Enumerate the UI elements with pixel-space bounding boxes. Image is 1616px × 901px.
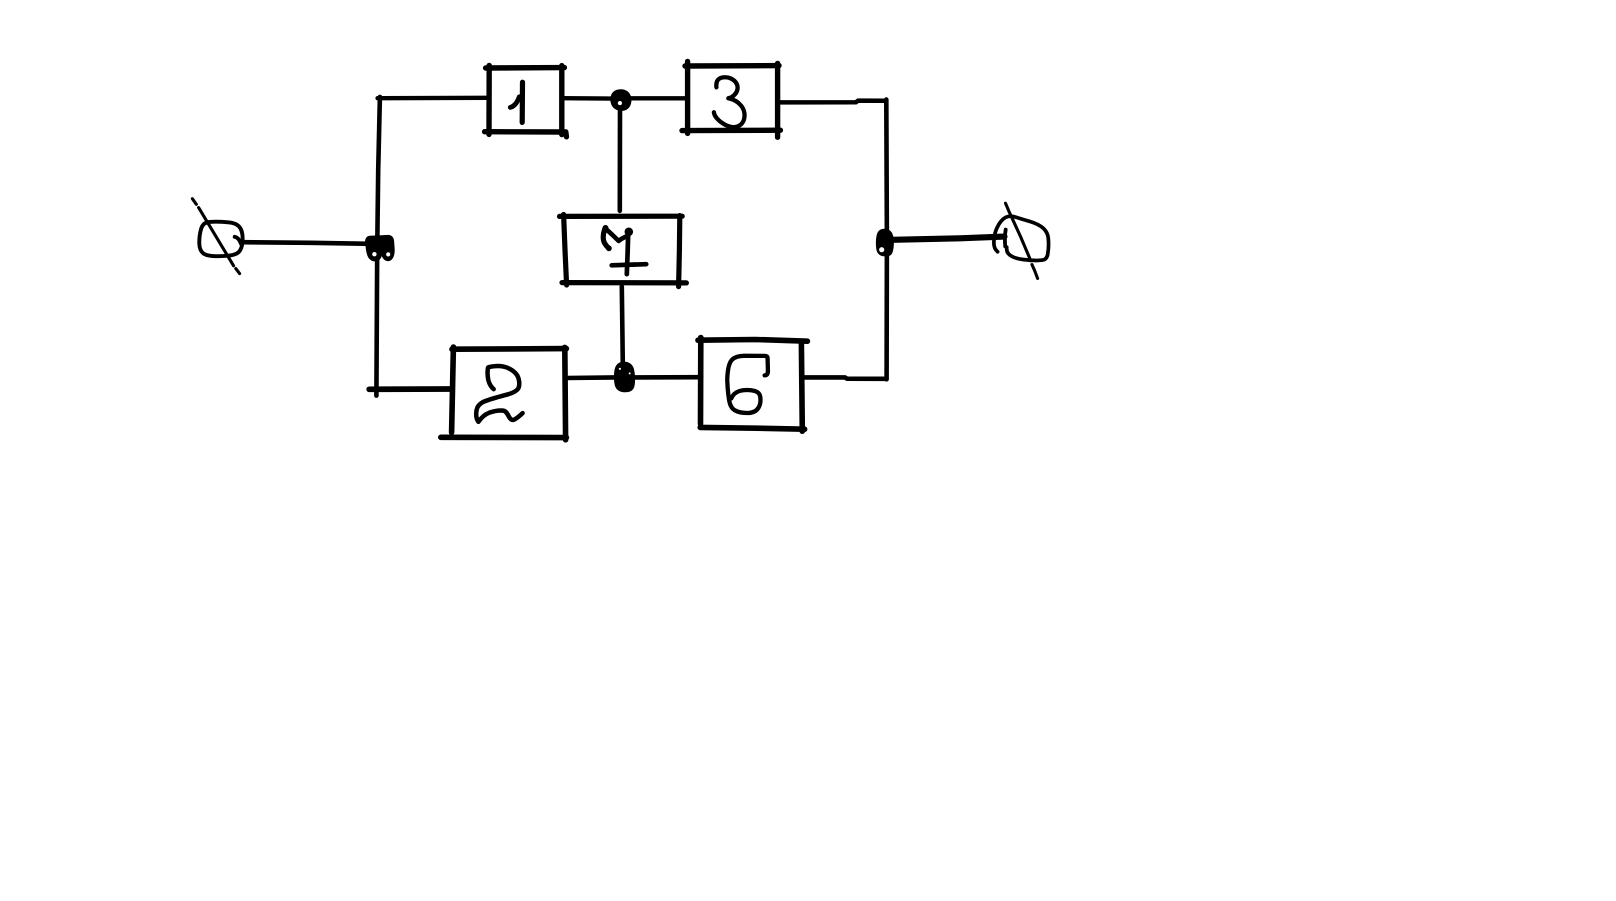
wire: left terminal to left node <box>242 242 372 244</box>
inner hook inside right terminal <box>1003 230 1008 247</box>
label "2" in box 2 <box>488 368 494 389</box>
wire: box 1 to top node <box>562 96 612 101</box>
label "1" in box 1 <box>520 82 525 122</box>
terminal T1 (left source circle) <box>199 222 242 256</box>
slash through left terminal <box>192 199 239 274</box>
wire: box 6 to right vertical <box>803 377 887 378</box>
node C (bottom junction blob) <box>614 362 635 393</box>
wire: box 7 down to bottom node <box>622 287 623 364</box>
wire: box 2 to bottom node <box>566 375 615 380</box>
label "6" in box 6 <box>727 356 768 413</box>
slash through right terminal <box>1006 203 1038 278</box>
box 6 <box>698 338 807 432</box>
node A (top junction blob) <box>610 89 631 111</box>
wire: right node to right terminal <box>892 237 1005 240</box>
node D (right junction blob) <box>876 229 894 257</box>
label "7" in box 7 <box>603 228 609 249</box>
box 3 <box>682 61 780 137</box>
label "3" in box 3 <box>714 77 745 127</box>
wire: right vertical <box>884 100 889 380</box>
box 7 <box>560 215 687 287</box>
wire: top-left horizontal to box 1 <box>378 96 488 101</box>
wire: top node to box 3 <box>629 96 687 100</box>
wire: top node down to box 7 <box>617 108 622 211</box>
wire: box 3 to top-right corner <box>778 101 886 103</box>
box 1 <box>485 65 567 136</box>
wire: left vertical (top corner down to bottom rail) <box>376 97 380 396</box>
wire: bottom node to box 6 <box>634 375 701 380</box>
node B (left junction blob) <box>365 235 395 262</box>
box 2 <box>441 347 567 440</box>
pen-end hook inside left terminal <box>235 237 241 244</box>
wire: bottom-left horizontal to box 2 <box>369 386 452 392</box>
terminal T2 (right sink circle) <box>994 216 1049 260</box>
